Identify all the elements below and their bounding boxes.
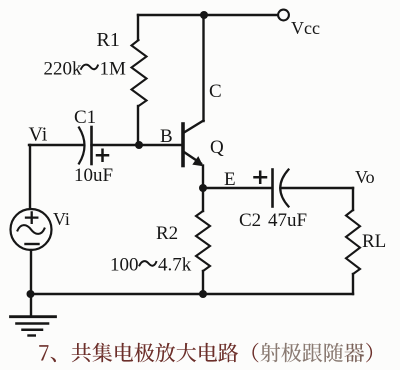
source Vi circle — [11, 209, 52, 250]
source plus sign — [26, 212, 37, 222]
node B dot — [135, 141, 143, 149]
svg-text:RL: RL — [362, 231, 386, 252]
svg-text:100: 100 — [110, 255, 139, 276]
svg-text:R2: R2 — [156, 223, 178, 244]
resistor R1 — [132, 40, 147, 106]
svg-text:R1: R1 — [97, 29, 120, 51]
svg-text:Vcc: Vcc — [291, 18, 320, 38]
wire C1 to base — [92, 144, 182, 146]
svg-text:Vo: Vo — [355, 167, 375, 187]
ground symbol — [30, 294, 32, 317]
transistor collector diagonal — [184, 121, 204, 133]
wire RL bottom — [352, 274, 354, 294]
resistor R2 — [196, 211, 210, 271]
wire R1 top stub — [137, 15, 139, 40]
caption title — [39, 343, 372, 363]
svg-text:C1: C1 — [74, 107, 96, 128]
svg-text:220k: 220k — [44, 59, 83, 80]
svg-text:E: E — [224, 169, 236, 190]
wire input Vi to C1 — [29, 144, 84, 146]
label tilde R1 value — [81, 65, 99, 70]
transistor emitter arrow — [192, 156, 203, 166]
wire R2 top — [202, 188, 204, 211]
svg-text:10uF: 10uF — [74, 165, 113, 186]
svg-text:4.7k: 4.7k — [158, 255, 192, 276]
svg-text:1M: 1M — [100, 59, 127, 80]
terminal Vcc circle — [278, 10, 289, 21]
wire collector up — [202, 15, 204, 121]
wire emitter down — [202, 166, 204, 189]
node E dot — [199, 184, 207, 192]
label tilde R2 value — [139, 261, 157, 266]
resistor RL — [346, 210, 360, 274]
plus sign C2 — [255, 172, 267, 183]
wire E node to C2 — [203, 187, 272, 189]
wire RL top — [352, 188, 354, 210]
svg-text:47uF: 47uF — [268, 210, 307, 231]
wire source to ground — [30, 250, 32, 294]
capacitor C1 — [79, 128, 85, 164]
source minus sign — [26, 243, 39, 245]
wire R2 bottom — [202, 271, 204, 294]
transistor Q1 base bar — [181, 124, 185, 166]
transistor emitter diagonal — [184, 152, 201, 164]
svg-text:Q: Q — [210, 137, 224, 158]
wire top rail — [138, 14, 278, 16]
wire C2 to RL — [281, 187, 354, 189]
svg-text:C2: C2 — [239, 210, 261, 231]
svg-text:Vi: Vi — [29, 124, 48, 146]
svg-text:Vi: Vi — [53, 209, 70, 229]
wire R1 bottom — [137, 106, 139, 145]
wire left branch down — [29, 145, 31, 209]
source sine wave — [18, 225, 45, 234]
svg-text:C: C — [209, 81, 222, 102]
node R2-bottom dot — [199, 290, 207, 298]
node dot top — [200, 11, 208, 19]
svg-text:B: B — [160, 126, 173, 147]
wire ground rail — [30, 293, 353, 295]
capacitor C2 — [271, 170, 274, 207]
node ground-left dot — [27, 290, 35, 298]
plus sign C1 — [97, 150, 108, 161]
